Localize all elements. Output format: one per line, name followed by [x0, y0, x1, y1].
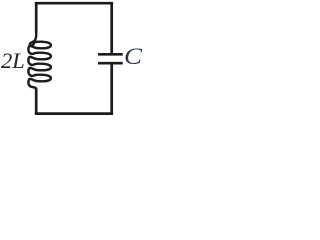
wire right upper (top corner to capacitor): [110, 2, 113, 53]
wire left lower (inductor to bottom corner): [35, 88, 38, 115]
capacitor C bottom plate: [98, 62, 123, 65]
wire top: [35, 2, 113, 5]
inductor 2L (coil, 4 turns): [28, 32, 51, 90]
wire right lower (capacitor to bottom corner): [110, 65, 113, 115]
capacitor value label C: [124, 46, 142, 69]
capacitor C top plate: [98, 53, 123, 56]
wire bottom: [35, 112, 113, 115]
wire left upper (top corner to inductor): [35, 2, 38, 33]
inductor value label 2L: [1, 50, 25, 73]
